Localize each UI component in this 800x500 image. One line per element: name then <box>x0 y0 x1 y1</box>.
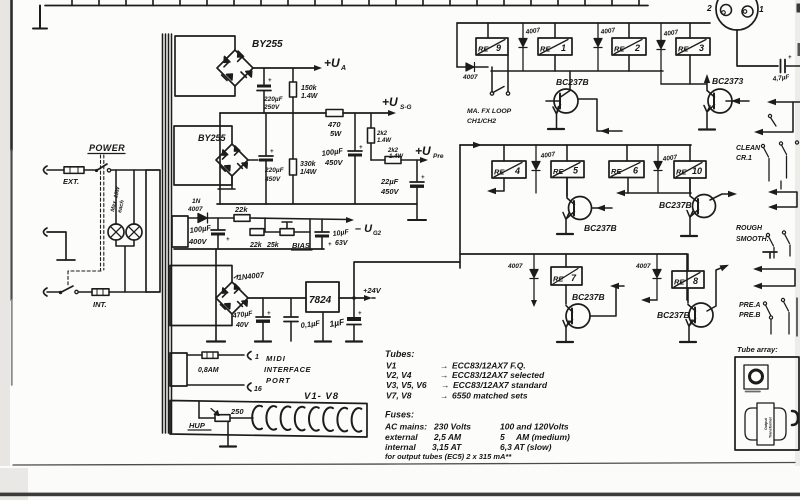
output transformer core rect <box>757 403 774 445</box>
row3 rail right drop <box>686 254 688 300</box>
relay RE6 <box>609 161 644 178</box>
switch mechanical dashed link <box>68 155 104 287</box>
diode 4007 (RE7) <box>530 254 538 303</box>
-UG2 arrowhead <box>346 217 354 223</box>
svg-text:1.4W: 1.4W <box>301 93 319 100</box>
svg-text:230 Volts: 230 Volts <box>433 422 471 432</box>
svg-text:10µF: 10µF <box>332 229 350 238</box>
transistor BC237B Q2 <box>569 197 592 220</box>
MIDI winding loop <box>170 353 187 386</box>
svg-text:S-G: S-G <box>400 104 412 111</box>
svg-text:SMOOTH.: SMOOTH. <box>736 236 769 243</box>
svg-text:4007: 4007 <box>599 27 616 36</box>
svg-text:1: 1 <box>759 4 764 14</box>
paper bottom area below page edge <box>0 466 800 500</box>
svg-text:470: 470 <box>327 120 341 129</box>
svg-text:+: + <box>358 311 362 317</box>
svg-text:4007: 4007 <box>462 74 478 81</box>
svg-text:POWER: POWER <box>89 143 125 153</box>
svg-text:450V: 450V <box>324 158 344 167</box>
Q1b base wire with left arrowhead <box>726 100 749 102</box>
bridge2 bottom join <box>218 176 235 189</box>
svg-text:100 and 120Volts: 100 and 120Volts <box>500 422 569 432</box>
relay RE4 <box>492 161 526 178</box>
svg-text:6,3 AT (slow): 6,3 AT (slow) <box>500 442 552 452</box>
svg-text:V7, V8: V7, V8 <box>386 391 412 401</box>
svg-text:+: + <box>421 175 425 181</box>
svg-text:ECC83/12AX7 standard: ECC83/12AX7 standard <box>453 380 548 390</box>
wire <box>294 231 310 233</box>
Q1 emitter ground <box>548 128 564 130</box>
XLR wire down and right <box>737 30 778 66</box>
svg-text:Fuses:: Fuses: <box>385 410 414 420</box>
svg-text:+U: +U <box>382 95 398 109</box>
+UA arrowhead <box>314 65 322 71</box>
bias winding loop <box>172 216 188 247</box>
svg-text:INT.: INT. <box>93 300 107 309</box>
bridge2 + wire to cap <box>248 159 258 161</box>
ground <box>255 340 271 342</box>
svg-text:AM (medium): AM (medium) <box>515 432 570 442</box>
svg-text:4007: 4007 <box>539 151 556 160</box>
fuse F-ext <box>64 167 84 174</box>
right edge cropped mark top <box>797 4 800 13</box>
rail drop joining row2 and row3 <box>459 145 461 268</box>
diode 4007 (RE3) <box>657 23 665 84</box>
svg-text:1µF: 1µF <box>329 316 346 329</box>
row3 right arrows <box>757 269 795 286</box>
svg-text:+: + <box>226 237 230 243</box>
power switch S1 (EXT side) <box>95 169 98 172</box>
transformer core lines <box>163 34 172 433</box>
svg-text:BC237B: BC237B <box>659 200 692 210</box>
svg-text:+: + <box>270 149 274 155</box>
svg-text:3: 3 <box>699 43 704 53</box>
svg-text:4007: 4007 <box>187 206 203 213</box>
svg-text:1.4W: 1.4W <box>377 138 392 144</box>
diode 4007 (RE1) <box>519 23 527 71</box>
wire <box>208 217 235 219</box>
rail arrowhead <box>388 110 396 116</box>
top mains bus line <box>45 5 648 7</box>
diode 4007 (RE2) <box>594 23 602 71</box>
speaker tiny caption <box>746 391 761 393</box>
svg-text:ROUGH: ROUGH <box>736 225 763 232</box>
lamp bottom join wires <box>116 240 134 292</box>
svg-text:220µF: 220µF <box>263 96 284 103</box>
diode8 lower wire with left arrowhead <box>646 299 657 301</box>
middle chassis connector <box>44 228 48 236</box>
svg-text:INTERFACE: INTERFACE <box>264 365 312 374</box>
row1 switch lever <box>768 114 771 117</box>
diode 4007 horizontal (FX loop) <box>457 66 488 68</box>
svg-text:22µF: 22µF <box>380 177 399 186</box>
diode 4007 (RE5) <box>532 145 540 193</box>
power switch S1 (INT side) <box>59 291 62 294</box>
rough/smooth switch contacts <box>766 233 769 236</box>
diode 1N4007 bias <box>198 213 208 223</box>
speaker icon ring <box>750 370 763 383</box>
svg-text:for output tubes (EC5) 2 x 31: for output tubes (EC5) 2 x 315 mA** <box>385 452 512 461</box>
relay RE2 <box>612 38 646 55</box>
wire <box>218 354 244 356</box>
Q1b collector up arrowhead <box>704 74 710 83</box>
relay RE7 <box>551 267 582 285</box>
transistor BC237B Q4 <box>566 304 590 328</box>
transistor BC237B Q1 <box>554 89 578 113</box>
svg-text:25k: 25k <box>266 242 280 249</box>
svg-text:– U: – U <box>355 223 373 235</box>
Q1b emitter ground <box>699 128 715 130</box>
EXT connector plug <box>44 166 48 174</box>
svg-text:BC237B: BC237B <box>556 77 589 87</box>
Q2 emitter ground <box>557 233 573 235</box>
svg-text:V1- V8: V1- V8 <box>304 391 339 402</box>
partial glyph at right edge <box>792 411 798 425</box>
svg-text:400V: 400V <box>188 237 208 246</box>
svg-text:250V: 250V <box>263 104 280 111</box>
bridge rectifier BY255 no.1 <box>217 50 253 86</box>
bias divider drop <box>264 218 266 232</box>
capacitor 470uF 40V <box>262 298 264 316</box>
row1 lower connecting wire <box>491 70 663 72</box>
svg-text:+: + <box>268 78 272 84</box>
Q5 base wire up with right arrowhead <box>707 266 726 311</box>
small tee above tube box <box>763 252 777 258</box>
svg-text:+: + <box>328 242 332 248</box>
svg-text:4007: 4007 <box>635 263 651 270</box>
top-left drop wire with chassis bar <box>33 6 47 29</box>
resistor 22k lower <box>250 229 264 236</box>
row2 rail arrowhead <box>473 142 482 148</box>
secondary winding 2 loop <box>174 126 232 185</box>
svg-text:Tubes:: Tubes: <box>385 349 414 359</box>
wire <box>84 169 95 171</box>
heater coil arcs V1-V8 <box>252 406 361 432</box>
svg-text:RE: RE <box>553 275 564 284</box>
relay RE10 <box>674 161 706 178</box>
+24V line to regulator <box>248 297 306 299</box>
bottom scanner dark bar <box>0 493 800 497</box>
bottom-left grey blotch <box>0 468 28 500</box>
svg-text:Output: Output <box>764 417 768 430</box>
transformer primary winding loop <box>146 170 160 292</box>
wire <box>47 169 64 171</box>
relay RE1 <box>538 38 572 55</box>
svg-text:63V: 63V <box>335 240 349 247</box>
svg-text:Pre: Pre <box>433 153 444 160</box>
svg-text:4: 4 <box>514 166 520 176</box>
svg-text:G2: G2 <box>373 231 382 237</box>
left scan edge dark line <box>10 0 13 150</box>
svg-text:8: 8 <box>693 276 698 286</box>
svg-text:AC mains:: AC mains: <box>384 422 427 432</box>
transistor BC237B Q3 <box>693 195 716 218</box>
svg-text:4007: 4007 <box>524 27 541 36</box>
lamp LA2 <box>126 224 142 240</box>
svg-text:40V: 40V <box>235 322 250 329</box>
transistor BC237B Q5 <box>689 303 713 327</box>
long vertical from bias rail to ground <box>215 249 217 341</box>
svg-text:1N: 1N <box>192 198 201 205</box>
svg-text:BC237B: BC237B <box>657 310 690 320</box>
svg-text:100µF: 100µF <box>189 223 212 235</box>
capacitor 22uF 450V <box>416 160 418 181</box>
svg-text:Tube array:: Tube array: <box>737 345 778 354</box>
svg-text:A: A <box>340 65 346 72</box>
svg-text:4007: 4007 <box>662 29 679 38</box>
right edge cropped mark 2 <box>798 43 800 56</box>
svg-text:CR.1: CR.1 <box>736 155 752 162</box>
ground under bridge <box>207 340 225 342</box>
secondary winding 1 loop <box>175 36 235 96</box>
node dot <box>352 296 356 300</box>
svg-text:3,15 AT: 3,15 AT <box>432 442 462 452</box>
hum pot wiper to ground <box>227 421 229 446</box>
lamp branch wires <box>116 170 134 224</box>
lamp LA1 <box>108 224 124 240</box>
INT connector plug <box>44 288 48 296</box>
svg-text:→: → <box>440 391 449 401</box>
wire <box>264 231 280 233</box>
svg-text:+24V: +24V <box>363 286 382 295</box>
svg-text:450V: 450V <box>264 176 281 183</box>
svg-text:100µF: 100µF <box>321 146 344 158</box>
svg-text:+: + <box>359 145 363 151</box>
Q3 base wire with arrowhead <box>710 194 734 200</box>
wire <box>187 384 244 386</box>
svg-text:V1: V1 <box>386 361 397 371</box>
svg-text:BY255: BY255 <box>198 133 227 143</box>
svg-text:V3, V5, V6: V3, V5, V6 <box>386 380 427 390</box>
0V rail <box>217 203 417 205</box>
potentiometer 25k BIAS <box>280 229 294 236</box>
svg-text:internal: internal <box>385 442 416 452</box>
24V winding loop <box>170 266 232 326</box>
capacitor 4,7uF <box>781 60 786 73</box>
svg-text:5W: 5W <box>330 129 342 138</box>
resistor 330k 1/4W <box>292 113 294 159</box>
svg-text:Transformer: Transformer <box>769 416 773 438</box>
svg-text:2k2: 2k2 <box>376 131 388 137</box>
row2 lower wire with left arrowhead <box>620 192 691 194</box>
fuse F-int <box>92 289 109 296</box>
svg-text:BC2373: BC2373 <box>712 76 743 86</box>
+US-B rail <box>220 112 390 114</box>
+24V feed wire up to relay rails <box>354 262 460 298</box>
right drop to bottom rail <box>309 219 311 249</box>
svg-text:→: → <box>441 380 450 390</box>
svg-text:16: 16 <box>254 386 262 393</box>
heater inner left vertical <box>198 401 200 418</box>
svg-text:22k: 22k <box>249 242 263 249</box>
svg-text:+U: +U <box>324 56 340 70</box>
speaker icon square <box>744 365 768 389</box>
svg-text:450V: 450V <box>380 187 400 196</box>
row1 rail left drop <box>456 23 458 67</box>
svg-text:+U: +U <box>415 144 431 158</box>
Q4 emitter ground <box>557 341 573 343</box>
FX loop switch <box>491 67 493 91</box>
relay row2 supply rail <box>460 144 691 146</box>
svg-text:6: 6 <box>633 166 639 176</box>
resistor 150k 1.4W <box>292 68 294 82</box>
bias wire <box>188 217 198 219</box>
capacitor 0,1uF <box>290 298 292 316</box>
svg-text:PRE.A: PRE.A <box>739 302 760 309</box>
Q2 base wire with left arrowhead <box>592 207 612 209</box>
capacitor 100uF 450V <box>354 113 356 150</box>
regulator output wire <box>339 297 366 299</box>
paper right margin <box>795 0 800 500</box>
ground under 22uF <box>408 219 426 221</box>
pre switch contacts <box>763 302 766 305</box>
Q1 right wire with arrow <box>578 99 622 131</box>
row1 right switch cluster wire <box>770 101 800 103</box>
Q5 emitter ground <box>680 341 696 343</box>
svg-text:CH1/CH2: CH1/CH2 <box>467 118 496 125</box>
svg-text:2,5 AM: 2,5 AM <box>433 432 462 442</box>
svg-text:1: 1 <box>255 354 259 361</box>
diode 4007 (RE6 right) <box>654 145 662 193</box>
svg-text:250: 250 <box>230 407 244 416</box>
fuse 0,8AM <box>202 352 218 358</box>
wire to primary <box>109 291 146 293</box>
relay RE3 <box>676 38 710 55</box>
capacitor 10uF 63V <box>321 220 323 232</box>
XLR connector <box>716 0 758 30</box>
svg-text:150k: 150k <box>301 85 318 92</box>
svg-text:MA. FX LOOP: MA. FX LOOP <box>467 108 512 115</box>
+24V arrowhead <box>364 295 372 301</box>
Q3 emitter ground <box>681 235 697 237</box>
capacitor 220uF 250V <box>263 68 265 84</box>
svg-text:7824: 7824 <box>309 295 332 306</box>
MIDI pin 1 connector <box>248 352 252 360</box>
svg-text:BY255: BY255 <box>252 39 283 50</box>
bias output wire <box>250 218 348 220</box>
bridge rectifier 1N4007 <box>216 282 248 314</box>
svg-text:ECC83/12AX7 selected: ECC83/12AX7 selected <box>452 370 545 380</box>
svg-text:BC237B: BC237B <box>572 292 605 302</box>
top bus ticks <box>72 0 639 6</box>
bridge rectifier BY255 no.2 <box>216 144 248 176</box>
svg-text:1/4W: 1/4W <box>300 169 318 176</box>
svg-text:9: 9 <box>496 43 501 53</box>
hum pot 250 <box>199 417 215 419</box>
svg-text:5: 5 <box>573 166 579 176</box>
svg-text:220µF: 220µF <box>264 167 285 174</box>
wire to primary <box>111 169 146 171</box>
svg-text:330k: 330k <box>300 161 317 168</box>
paper left margin <box>0 0 10 500</box>
svg-text:+: + <box>788 55 792 61</box>
transistor BC2373 Q1b <box>708 89 732 113</box>
svg-text:2: 2 <box>706 3 712 13</box>
+UPre arrowhead <box>420 157 428 163</box>
svg-text:V2, V4: V2, V4 <box>386 370 412 380</box>
svg-text:4,7µF: 4,7µF <box>771 74 791 84</box>
resistor 22k top <box>234 215 250 222</box>
capacitor 1uF output <box>353 298 355 317</box>
svg-text:5: 5 <box>500 432 505 442</box>
svg-text:PORT: PORT <box>266 376 291 385</box>
svg-text:+: + <box>267 311 271 317</box>
svg-text:MIDI: MIDI <box>266 354 286 363</box>
svg-text:2: 2 <box>634 43 640 53</box>
clean switch contacts <box>761 144 764 147</box>
heater bus outline <box>170 401 367 438</box>
relay RE8 <box>672 271 704 288</box>
regulator 7824 <box>306 282 339 312</box>
page bottom edge line <box>13 463 795 466</box>
svg-text:22k: 22k <box>234 205 248 214</box>
svg-text:7: 7 <box>571 273 577 283</box>
svg-text:external: external <box>385 432 418 442</box>
capacitor 100uF 400V <box>217 218 219 229</box>
relay row3 supply rail <box>460 253 687 255</box>
relay row1 supply rail <box>457 22 710 24</box>
svg-text:CLEAN: CLEAN <box>736 145 761 152</box>
svg-text:BC237B: BC237B <box>584 223 617 233</box>
tube array box <box>735 357 799 450</box>
output transformer body left <box>745 408 757 440</box>
bias bottom rail <box>174 248 324 250</box>
svg-text:HUP: HUP <box>189 421 206 430</box>
svg-text:1N4007: 1N4007 <box>237 270 265 282</box>
ground <box>346 340 362 342</box>
relay RE5 <box>551 161 584 178</box>
resistor 2k2 1.4W vertical <box>370 113 372 128</box>
output transformer body right <box>774 408 786 440</box>
+UA output wire <box>253 67 318 69</box>
Q4 base wire up with left arrowhead <box>590 286 624 316</box>
row2 right cluster arrows <box>772 192 797 207</box>
svg-text:1: 1 <box>561 43 566 53</box>
regulator ground pin <box>322 312 324 341</box>
svg-text:0,1µF: 0,1µF <box>300 318 321 330</box>
wire <box>187 354 202 356</box>
rail left vertical <box>219 113 221 189</box>
row1 right lower wire <box>661 83 706 85</box>
diode 4007 (RE8) <box>653 254 661 300</box>
MIDI pin 16 connector <box>248 383 252 391</box>
svg-text:→: → <box>440 370 449 380</box>
capacitor 220uF 450V <box>265 113 267 155</box>
svg-text:ECC83/12AX7 F.Q.: ECC83/12AX7 F.Q. <box>452 361 526 371</box>
resistor 470 5W <box>326 110 343 117</box>
svg-text:0,8AM: 0,8AM <box>198 367 219 374</box>
svg-text:6550 matched sets: 6550 matched sets <box>452 391 528 401</box>
svg-text:EXT.: EXT. <box>63 177 79 186</box>
svg-text:→: → <box>440 361 449 371</box>
svg-text:4007: 4007 <box>507 263 523 270</box>
relay RE9 <box>476 38 508 55</box>
svg-text:PRE.B: PRE.B <box>739 312 760 319</box>
svg-text:10: 10 <box>692 166 702 176</box>
